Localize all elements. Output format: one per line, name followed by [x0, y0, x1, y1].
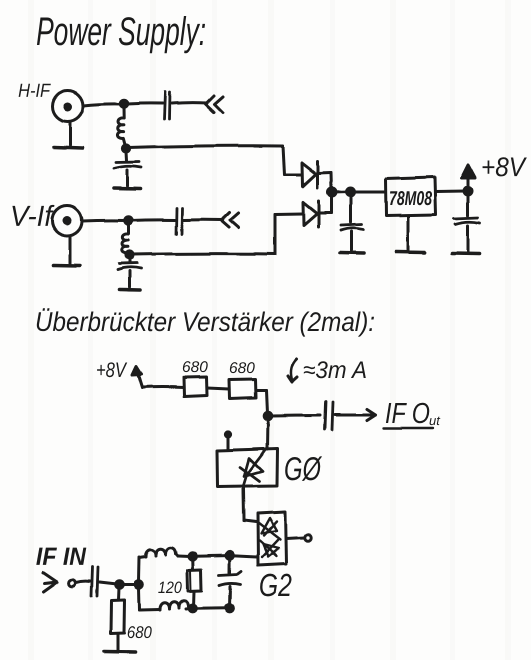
svg-text:+8V: +8V	[481, 152, 528, 182]
svg-text:Power Supply:: Power Supply:	[36, 10, 206, 54]
svg-text:G2: G2	[259, 567, 292, 603]
svg-text:V-If: V-If	[10, 201, 55, 233]
svg-text:+8V: +8V	[96, 359, 128, 382]
svg-text:ut: ut	[429, 413, 441, 428]
svg-text:78M08: 78M08	[389, 188, 433, 210]
svg-text:GØ: GØ	[284, 450, 323, 487]
svg-text:680: 680	[127, 623, 152, 642]
svg-text:H-IF: H-IF	[18, 81, 51, 102]
svg-text:IF O: IF O	[385, 398, 430, 430]
svg-text:120: 120	[158, 579, 183, 597]
svg-text:680: 680	[182, 359, 208, 376]
svg-text:680: 680	[229, 360, 255, 377]
svg-text:Überbrückter Verstärker (2mal): Überbrückter Verstärker (2mal):	[35, 307, 375, 337]
svg-text:IF IN: IF IN	[36, 543, 87, 571]
svg-text:≈3m A: ≈3m A	[303, 357, 367, 384]
